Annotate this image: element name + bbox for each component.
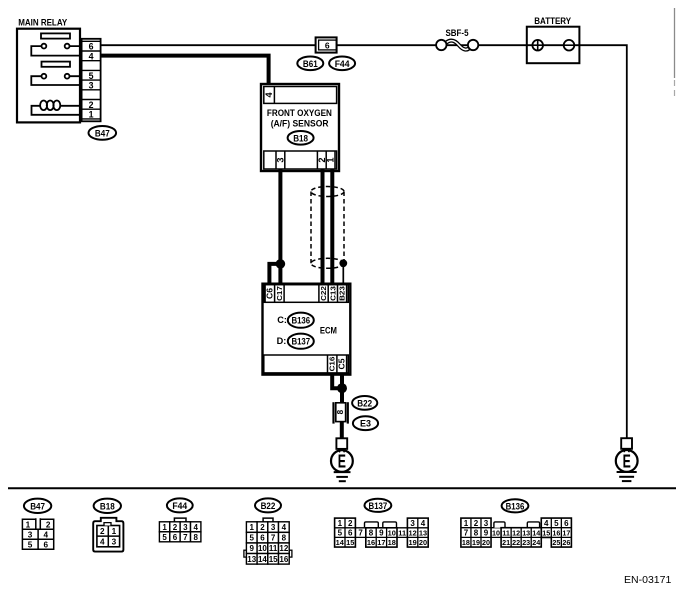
svg-text:D:: D:: [277, 336, 287, 346]
oval label B18 (pinout): [94, 499, 121, 513]
svg-text:2: 2: [46, 520, 51, 529]
svg-text:21: 21: [502, 538, 510, 547]
relay contact 1: [31, 44, 81, 56]
ECM pin C16 label: [328, 357, 337, 372]
svg-text:F44: F44: [335, 59, 351, 69]
svg-text:11: 11: [398, 529, 406, 538]
svg-text:1: 1: [338, 519, 343, 528]
wire: shield drain to ECM B23: [342, 263, 344, 285]
oval label B136 (ECM C): [288, 313, 314, 328]
oval label B22 (inline): [352, 396, 377, 410]
wire: sensor pin 3 to ECM C17 (thick): [278, 169, 282, 285]
svg-text:12: 12: [408, 529, 416, 538]
svg-text:26: 26: [562, 538, 570, 547]
svg-text:18: 18: [462, 538, 470, 547]
svg-text:10: 10: [388, 529, 396, 538]
svg-text:13: 13: [419, 529, 427, 538]
sensor title text: [267, 108, 332, 128]
ECM bottom pin row: [264, 355, 349, 373]
ECM D designator: [277, 336, 287, 346]
left ground hatch: [334, 472, 351, 481]
connector B47 pinout grid: [22, 518, 53, 549]
drawing number EN-03171: [624, 574, 671, 586]
svg-text:C6: C6: [265, 287, 274, 299]
oval label B18 (on sensor): [288, 131, 314, 145]
svg-text:14: 14: [336, 538, 345, 547]
relay armature bar 1: [41, 33, 70, 38]
svg-text:6: 6: [260, 534, 265, 543]
svg-text:C:: C:: [277, 315, 287, 325]
ECM pin C6 label: [265, 287, 274, 299]
wire: ECM C5 to junction (thick): [340, 373, 344, 388]
sensor pin 4 label: [264, 91, 274, 97]
svg-text:4: 4: [264, 91, 274, 97]
svg-text:23: 23: [522, 538, 530, 547]
ECM box: [263, 284, 351, 375]
svg-text:B22: B22: [357, 398, 372, 408]
svg-text:MAIN RELAY: MAIN RELAY: [18, 18, 68, 28]
svg-text:4: 4: [193, 523, 198, 532]
svg-text:16: 16: [279, 555, 288, 564]
svg-text:3: 3: [28, 530, 33, 539]
svg-text:SBF-5: SBF-5: [446, 28, 469, 38]
svg-text:9: 9: [379, 529, 384, 538]
sensor pin 2 label: [317, 157, 327, 162]
svg-text:B22: B22: [261, 501, 276, 511]
svg-text:1: 1: [464, 519, 469, 528]
svg-text:3: 3: [410, 519, 415, 528]
svg-text:17: 17: [562, 529, 570, 538]
svg-text:FRONT OXYGEN: FRONT OXYGEN: [267, 108, 332, 118]
svg-text:B61: B61: [303, 59, 318, 69]
inline connector, pin 6, B61-F44: [316, 37, 337, 52]
svg-text:2: 2: [348, 519, 353, 528]
svg-text:17: 17: [377, 538, 385, 547]
svg-text:10: 10: [258, 544, 267, 553]
svg-text:8: 8: [282, 534, 287, 543]
svg-text:11: 11: [502, 529, 510, 538]
svg-text:12: 12: [279, 544, 288, 553]
wire: sensor pin 2 to ECM C22 (thick): [321, 169, 325, 285]
svg-text:B47: B47: [95, 128, 110, 138]
svg-text:12: 12: [512, 529, 520, 538]
svg-text:25: 25: [552, 538, 560, 547]
svg-text:5: 5: [89, 71, 94, 81]
svg-text:16: 16: [552, 529, 560, 538]
svg-text:6: 6: [348, 529, 353, 538]
svg-text:B137: B137: [291, 337, 310, 347]
svg-text:2: 2: [173, 523, 178, 532]
svg-text:C17: C17: [275, 286, 284, 301]
right ground terminal square: [621, 438, 632, 449]
svg-text:10: 10: [492, 529, 500, 538]
svg-text:B18: B18: [293, 133, 308, 143]
svg-text:B136: B136: [291, 316, 310, 326]
svg-text:8: 8: [474, 529, 479, 538]
svg-text:EN-03171: EN-03171: [624, 574, 671, 586]
svg-text:(A/F) SENSOR: (A/F) SENSOR: [271, 119, 329, 129]
svg-text:7: 7: [271, 534, 276, 543]
right ground hatch: [617, 472, 637, 481]
svg-text:E3: E3: [360, 419, 371, 429]
fuse SBF-5: [436, 28, 478, 50]
svg-text:9: 9: [484, 529, 489, 538]
svg-text:6: 6: [89, 42, 94, 52]
svg-text:1: 1: [89, 110, 94, 120]
svg-text:5: 5: [28, 540, 33, 549]
svg-text:15: 15: [542, 529, 550, 538]
relay coil: [32, 101, 82, 115]
svg-text:13: 13: [247, 555, 256, 564]
svg-text:5: 5: [554, 519, 559, 528]
oval label B61: [297, 57, 323, 71]
ECM top pin row: [264, 285, 349, 303]
connector B22 pinout grid: [244, 518, 292, 564]
svg-text:C22: C22: [319, 286, 328, 301]
connector F44 pinout grid: [159, 518, 201, 542]
svg-text:1: 1: [162, 523, 167, 532]
wire: battery negative to right ground: [569, 45, 627, 438]
ECM pin C5 label: [337, 358, 346, 370]
svg-text:4: 4: [100, 537, 105, 546]
svg-text:B137: B137: [369, 501, 388, 511]
wire: sensor pin 1 to ECM C13 (thick): [330, 169, 334, 285]
ECM connector designators: [277, 315, 287, 325]
svg-text:B47: B47: [30, 501, 45, 511]
ECM pin C17 label: [275, 286, 284, 301]
svg-text:3: 3: [112, 537, 117, 546]
svg-text:E: E: [338, 451, 346, 472]
svg-text:1: 1: [326, 157, 336, 162]
svg-text:6: 6: [325, 41, 330, 51]
battery: [527, 16, 580, 63]
main relay connector strip B47: [82, 39, 101, 122]
svg-text:1: 1: [250, 523, 255, 532]
svg-text:20: 20: [419, 538, 427, 547]
svg-text:8: 8: [193, 533, 198, 542]
oval label B47 (pinout): [24, 499, 51, 513]
shield (dashed) around wires to C22/C13: [311, 187, 344, 269]
svg-text:F44: F44: [172, 501, 188, 511]
connector B137 pinout grid: [335, 518, 429, 547]
svg-text:7: 7: [358, 529, 363, 538]
svg-text:1: 1: [26, 520, 31, 529]
relay armature bar 2: [42, 62, 71, 67]
left ground symbol E: [331, 449, 353, 472]
svg-text:E: E: [623, 451, 631, 472]
main relay box: [17, 29, 80, 123]
svg-text:9: 9: [250, 544, 255, 553]
svg-text:16: 16: [367, 538, 375, 547]
oval label B137 (pinout): [365, 499, 392, 512]
svg-text:2: 2: [100, 527, 105, 536]
svg-text:18: 18: [388, 538, 396, 547]
ECM pin C22 label: [319, 286, 328, 301]
oval label B22 (pinout): [255, 498, 281, 512]
svg-text:B136: B136: [506, 501, 525, 511]
inline connector pin 8, B22-E3: [334, 402, 348, 423]
svg-text:3: 3: [484, 519, 489, 528]
svg-text:15: 15: [346, 538, 354, 547]
svg-text:5: 5: [162, 533, 167, 542]
front oxygen (A/F) sensor B18: [261, 84, 339, 171]
oval label B47: [89, 126, 117, 140]
junction dot below ECM: [337, 383, 347, 393]
svg-text:4: 4: [44, 530, 49, 539]
svg-text:B23: B23: [338, 286, 347, 301]
svg-text:6: 6: [173, 533, 178, 542]
connector B18 pinout grid: [93, 518, 123, 552]
wire: main relay pin 4 to front oxygen sensor pin 4 (thick): [101, 56, 269, 85]
text ECM: [320, 325, 337, 335]
sensor pin 1 label: [326, 157, 336, 162]
svg-text:4: 4: [544, 519, 549, 528]
svg-text:8: 8: [336, 409, 345, 414]
svg-text:20: 20: [482, 538, 490, 547]
connector B136 pinout grid: [461, 518, 572, 547]
oval label B137 (ECM D): [288, 334, 314, 349]
svg-text:3: 3: [271, 523, 276, 532]
svg-text:C16: C16: [328, 357, 337, 372]
svg-text:5: 5: [338, 529, 343, 538]
label MAIN RELAY: [18, 18, 68, 28]
svg-text:3: 3: [183, 523, 188, 532]
svg-text:22: 22: [512, 538, 520, 547]
svg-text:8: 8: [369, 529, 374, 538]
svg-text:3: 3: [89, 80, 94, 90]
svg-text:13: 13: [522, 529, 530, 538]
svg-text:15: 15: [269, 555, 278, 564]
wire: inline connector to left ground terminal (thick): [340, 422, 344, 439]
oval label B136 (pinout): [502, 499, 529, 512]
oval label F44 (pinout): [167, 498, 193, 512]
svg-text:4: 4: [282, 523, 287, 532]
svg-text:2: 2: [474, 519, 479, 528]
sensor pin 3 label: [275, 157, 285, 162]
svg-text:7: 7: [183, 533, 188, 542]
separator line: [8, 487, 676, 489]
page edge artifact: [674, 8, 676, 96]
wire: junction to inline connector (thick): [340, 388, 344, 403]
wire: branch from junction to ECM C6 (thick): [269, 264, 280, 285]
ECM pin C13 label: [328, 286, 337, 301]
svg-text:2: 2: [260, 523, 265, 532]
svg-text:24: 24: [532, 538, 540, 547]
svg-text:2: 2: [89, 100, 94, 110]
right ground symbol E: [616, 449, 638, 472]
svg-text:3: 3: [275, 157, 285, 162]
oval label F44: [329, 57, 355, 71]
shield drain junction dot: [339, 259, 347, 267]
svg-text:7: 7: [464, 529, 469, 538]
ECM pin B23 label: [338, 286, 347, 301]
svg-text:4: 4: [421, 519, 426, 528]
svg-text:5: 5: [250, 534, 255, 543]
wire: main relay pin 6 to battery positive via fuse: [101, 44, 538, 46]
oval label E3 (inline): [353, 416, 378, 430]
junction dot on pin3 wire: [276, 259, 286, 269]
svg-text:C5: C5: [337, 358, 346, 370]
svg-text:ECM: ECM: [320, 325, 337, 335]
svg-text:19: 19: [472, 538, 480, 547]
svg-text:14: 14: [532, 529, 540, 538]
wire: ECM C16 to junction (thick): [332, 373, 342, 388]
svg-text:1: 1: [112, 527, 117, 536]
svg-text:19: 19: [408, 538, 416, 547]
svg-text:14: 14: [258, 555, 267, 564]
svg-text:6: 6: [564, 519, 569, 528]
relay contact 2: [31, 74, 81, 85]
svg-text:B18: B18: [100, 501, 115, 511]
svg-text:11: 11: [269, 544, 278, 553]
svg-text:C13: C13: [328, 286, 337, 301]
svg-text:4: 4: [89, 51, 94, 61]
left ground terminal square: [336, 438, 347, 449]
svg-text:6: 6: [44, 540, 49, 549]
sensor bottom pin row: [264, 151, 337, 169]
svg-text:BATTERY: BATTERY: [534, 16, 571, 26]
